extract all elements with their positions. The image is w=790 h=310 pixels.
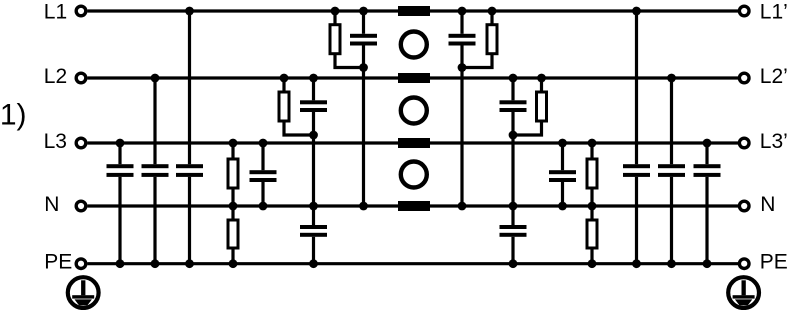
- svg-text:PE: PE: [44, 250, 72, 273]
- svg-text:L1’: L1’: [760, 1, 788, 24]
- svg-text:N: N: [44, 193, 59, 216]
- svg-text:L3’: L3’: [760, 130, 788, 153]
- svg-text:1): 1): [0, 99, 26, 132]
- svg-text:L2: L2: [44, 65, 67, 88]
- svg-text:N: N: [760, 193, 775, 216]
- svg-text:L1: L1: [44, 1, 67, 24]
- svg-text:L3: L3: [44, 130, 67, 153]
- svg-text:L2’: L2’: [760, 65, 788, 88]
- svg-text:PE: PE: [760, 250, 788, 273]
